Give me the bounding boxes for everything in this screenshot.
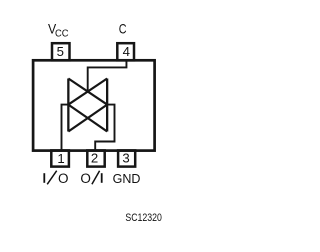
transil array right cathode bar bbox=[106, 79, 108, 132]
svg-text:CC: CC bbox=[55, 29, 69, 40]
pin 4 box bbox=[117, 43, 134, 60]
label I/O : letter I bbox=[43, 173, 45, 183]
svg-text:O: O bbox=[80, 171, 91, 186]
package body outline bbox=[33, 60, 155, 150]
svg-text:GND: GND bbox=[113, 171, 141, 186]
svg-text:1: 1 bbox=[57, 151, 64, 166]
svg-text:3: 3 bbox=[122, 151, 129, 166]
lower bidirectional cell diagonal a bbox=[68, 105, 107, 132]
wire right bar to pin2 bbox=[95, 105, 114, 151]
svg-text:C: C bbox=[119, 22, 127, 37]
wire left bar to pin1 bbox=[62, 105, 69, 151]
pin 2 box bbox=[87, 150, 104, 166]
upper bidirectional cell diagonal b bbox=[68, 79, 107, 105]
upper bidirectional cell diagonal a bbox=[68, 79, 107, 105]
svg-text:5: 5 bbox=[57, 44, 64, 59]
wire pin4 to upper cell center bbox=[88, 60, 127, 91]
pin 5 box bbox=[52, 43, 70, 60]
pin 1 box bbox=[51, 150, 69, 166]
svg-text:O: O bbox=[58, 171, 69, 186]
label O/I : slash bbox=[92, 171, 100, 185]
lower bidirectional cell diagonal b bbox=[68, 105, 107, 132]
svg-text:4: 4 bbox=[123, 44, 130, 59]
label I/O : slash bbox=[47, 171, 57, 185]
svg-text:SC12320: SC12320 bbox=[125, 212, 161, 224]
svg-text:2: 2 bbox=[91, 151, 98, 166]
pin 3 box bbox=[118, 150, 135, 166]
label O/I : letter I bbox=[101, 173, 103, 183]
transil array left cathode bar bbox=[67, 79, 69, 132]
